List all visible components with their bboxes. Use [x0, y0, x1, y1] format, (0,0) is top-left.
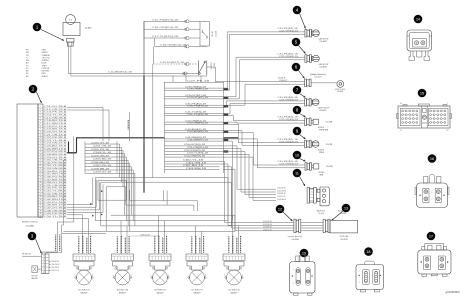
jumper harness connector A: [294, 219, 301, 232]
svg-text:C31-PK(E2)-18: C31-PK(E2)-18: [278, 97, 298, 99]
splice bundle wire pairs: [165, 86, 224, 141]
jumper harness cable: [330, 220, 358, 233]
relay K1: [200, 22, 210, 46]
svg-text:C205-BU-18: C205-BU-18: [93, 159, 111, 161]
splice bundle five wire group: [165, 144, 224, 157]
callout 13: [332, 204, 351, 221]
harness branch verticals: [64, 137, 74, 226]
diode label: [31, 275, 38, 280]
ECM pin rows and wire labels: [38, 105, 68, 218]
injector 5 connector: [223, 254, 245, 261]
speed sensor pigtail label: [319, 166, 333, 176]
svg-text:29: 29: [40, 185, 42, 187]
svg-text:NO1 INJECTOR: NO1 INJECTOR: [78, 290, 90, 292]
injector 2 solenoid: [113, 270, 132, 285]
atmos pressure pigtail label: [318, 122, 332, 132]
svg-text:C204-GN-18: C204-GN-18: [91, 155, 109, 157]
svg-text:CD-768: CD-768: [326, 166, 333, 168]
svg-text:15: 15: [40, 146, 42, 148]
svg-text:C150-GY-18: C150-GY-18: [263, 221, 272, 223]
callout 6: [292, 63, 305, 79]
atmos pressure pigtail wires: [276, 117, 305, 124]
svg-text:NO3 INJECTOR: NO3 INJECTOR: [154, 290, 166, 292]
jumper harness wires: [240, 221, 294, 231]
svg-text:37: 37: [40, 207, 42, 209]
staircase wires to pigtail connectors: [224, 32, 277, 168]
injector 3 rotated wire labels: [155, 235, 167, 253]
key switch rotated wire labels: [56, 235, 60, 251]
svg-text:16: 16: [430, 157, 434, 161]
injector 4 rotated wire labels: [192, 235, 204, 253]
svg-text:13: 13: [344, 207, 348, 211]
svg-text:C32-OR(E3)-18: C32-OR(E3)-18: [279, 164, 298, 166]
svg-text:C43-BU(E6)-18: C43-BU(E6)-18: [187, 131, 208, 133]
svg-text:13: 13: [40, 140, 42, 142]
svg-text:C32-OR(E3)-18: C32-OR(E3)-18: [279, 100, 298, 102]
injector 4 body: [187, 262, 207, 271]
svg-text:C54-GN(S4)-18: C54-GN(S4)-18: [184, 155, 205, 157]
injector splice block rails: [85, 141, 117, 173]
svg-text:C33-GN-18: C33-GN-18: [278, 78, 286, 80]
svg-text:C203-YL-18: C203-YL-18: [93, 152, 111, 154]
connector view CV1 two-pin: [407, 30, 432, 61]
speed sensor pigtail mating plug: [312, 164, 319, 169]
svg-text:C11-BK(E11)-18: C11-BK(E11)-18: [108, 72, 132, 74]
cab signal pigtail connector: [305, 55, 312, 63]
svg-text:31: 31: [40, 191, 42, 193]
svg-text:C27-PK-18: C27-PK-18: [187, 81, 209, 83]
svg-text:28: 28: [40, 182, 42, 184]
svg-text:CD-3602: CD-3602: [319, 110, 326, 112]
injector 1 connector: [73, 254, 95, 261]
svg-text:NO5 INJECTOR: NO5 INJECTOR: [228, 290, 240, 292]
svg-text:12: 12: [40, 137, 42, 139]
svg-text:C15-PK(E13)-18: C15-PK(E13)-18: [152, 19, 178, 21]
switch output wire to group connector: [207, 67, 276, 82]
ECM label: [22, 222, 38, 228]
svg-text:[Helper Harness]: [Helper Harness]: [310, 74, 325, 76]
key switch connector: [42, 254, 50, 274]
svg-text:C28-OR(E1)-18: C28-OR(E1)-18: [187, 89, 208, 91]
svg-text:11: 11: [40, 134, 42, 136]
svg-text:PRES: PRES: [319, 152, 325, 154]
svg-text:C31-PK(E2)-18: C31-PK(E2)-18: [278, 28, 298, 30]
injector 3 label: [154, 290, 166, 295]
svg-text:21: 21: [40, 162, 42, 164]
svg-text:NO4 INJECTOR: NO4 INJECTOR: [191, 290, 203, 292]
svg-text:27: 27: [40, 179, 42, 181]
svg-text:C141-OR-18: C141-OR-18: [277, 191, 286, 193]
cab power pigtail wires: [276, 28, 305, 34]
svg-text:C30-PK(E3)-18: C30-PK(E3)-18: [187, 106, 208, 108]
svg-text:C162-PK-16: C162-PK-16: [51, 267, 59, 269]
svg-text:40: 40: [40, 216, 42, 218]
svg-text:39: 39: [40, 213, 42, 215]
injector 2 feed wires: [121, 221, 127, 254]
inline connector on sender wire: [183, 72, 187, 75]
svg-text:14: 14: [40, 143, 42, 145]
svg-text:10: 10: [40, 131, 42, 133]
svg-text:KEY SW: KEY SW: [31, 275, 38, 277]
svg-text:C42-GN(E5)-18: C42-GN(E5)-18: [187, 123, 208, 125]
switch label: [211, 62, 216, 69]
lamp group pigtail mating plug: [311, 99, 319, 106]
cab signal pigtail label: [318, 63, 329, 69]
svg-text:C44-WH(E7)-18: C44-WH(E7)-18: [187, 139, 208, 141]
injector harness routing bundle: [90, 178, 235, 232]
svg-text:C160-GY-16: C160-GY-16: [51, 261, 59, 263]
callout 3: [28, 232, 42, 254]
group pigtail wires: [276, 78, 305, 85]
pressure switch S2 wire dashed: [154, 46, 198, 65]
svg-text:BLACK: BLACK: [42, 75, 49, 78]
svg-text:CD-4027: CD-4027: [314, 77, 321, 79]
svg-text:RELAY: RELAY: [211, 30, 214, 36]
svg-text:C31-PK(E2)-18: C31-PK(E2)-18: [278, 53, 298, 55]
key switch feed wires: [43, 222, 74, 254]
svg-text:SB-8477: SB-8477: [81, 293, 88, 295]
svg-text:C161-OR-16: C161-OR-16: [51, 264, 60, 266]
svg-text:17: 17: [40, 151, 42, 153]
injector 4 solenoid: [188, 270, 207, 285]
injector splice block rows: [85, 142, 117, 173]
svg-text:C16-OR(E14)-18: C16-OR(E14)-18: [152, 27, 178, 29]
cab power pigtail connector: [305, 29, 312, 37]
coolant temp pigtail wires: [276, 139, 305, 146]
injector 5 feed wires: [233, 215, 239, 254]
coolant temp pigtail connector: [305, 140, 312, 148]
atmos pressure pigtail mating plug: [311, 119, 318, 124]
svg-text:26: 26: [40, 176, 42, 178]
svg-text:20: 20: [40, 160, 42, 162]
helper harness note: [310, 74, 325, 79]
relay K1 label: [211, 30, 217, 36]
svg-text:S-8: S-8: [69, 19, 72, 21]
svg-text:C151-OR-18: C151-OR-18: [263, 224, 272, 226]
jumper wires between connectors: [301, 223, 323, 231]
injector 5 label: [228, 290, 240, 295]
svg-text:C143-YL-18: C143-YL-18: [277, 196, 285, 198]
feed wires into splice column top: [173, 76, 201, 82]
svg-text:40: 40: [400, 103, 402, 105]
svg-text:10: 10: [295, 154, 299, 158]
staircase wires to solenoid valve connector: [224, 146, 277, 200]
svg-text:C31-PK(E2)-18: C31-PK(E2)-18: [278, 117, 298, 119]
svg-text:34: 34: [40, 199, 42, 201]
injector 2 body: [113, 262, 133, 271]
pair seven drop wire: [224, 141, 233, 221]
svg-text:C207-PU-18: C207-PU-18: [93, 165, 111, 167]
injector 5 rotated wire labels: [229, 235, 241, 253]
wire labels above relay wires: [152, 19, 178, 38]
callout 16: [428, 154, 437, 163]
svg-text:C206-WH-18: C206-WH-18: [91, 162, 109, 164]
cab power pigtail mating plug: [312, 30, 320, 37]
connector view CV6: [290, 254, 316, 295]
svg-text:21: 21: [400, 130, 402, 132]
svg-text:35: 35: [40, 202, 42, 204]
svg-text:C153-YL-18: C153-YL-18: [263, 229, 271, 231]
injector 1 solenoid: [75, 270, 94, 285]
svg-text:SB-2N2: SB-2N2: [31, 278, 37, 280]
svg-text:C51-OR(S1)-18: C51-OR(S1)-18: [187, 147, 208, 149]
svg-text:ENGINE CONTROL: ENGINE CONTROL: [22, 222, 38, 224]
svg-text:CNTRL VAL: CNTRL VAL: [339, 235, 348, 238]
callout 17: [427, 232, 436, 241]
splice bundle lower rows: [165, 159, 224, 169]
group pigtail lead and ring terminal: [311, 81, 344, 88]
svg-text:36: 36: [40, 205, 42, 207]
svg-text:C31-PK(E2)-18: C31-PK(E2)-18: [278, 161, 298, 163]
wire 4 to cab connector: [155, 38, 207, 48]
thick harness branch path: [67, 138, 238, 153]
injector 3 solenoid: [151, 270, 170, 285]
lamp group pigtail connector: [305, 98, 312, 106]
svg-text:15: 15: [420, 92, 424, 96]
svg-text:C201-OR-18: C201-OR-18: [93, 146, 111, 148]
injector 5 body: [224, 262, 244, 271]
connector view CV2 ECM 40-pin: [397, 103, 452, 132]
lamp group pigtail wires: [276, 97, 305, 104]
svg-text:C152-PK-18: C152-PK-18: [263, 227, 272, 229]
group pigtail label: [335, 89, 346, 93]
svg-text:C32-OR(E3)-18: C32-OR(E3)-18: [279, 56, 298, 58]
injector 4 connector: [186, 254, 208, 261]
svg-text:30: 30: [40, 188, 42, 190]
callout 11: [293, 169, 305, 186]
svg-text:02-800: 02-800: [85, 28, 92, 30]
svg-text:C32-OR(E3)-18: C32-OR(E3)-18: [279, 141, 298, 143]
callout 14: [414, 15, 423, 24]
svg-text:19: 19: [40, 157, 42, 159]
callout 2: [29, 85, 42, 103]
svg-text:C31-PK(E2)-18: C31-PK(E2)-18: [278, 139, 298, 141]
svg-text:CD-4601: CD-4601: [26, 226, 36, 228]
svg-text:CD-5075: CD-5075: [340, 239, 347, 241]
svg-text:38: 38: [40, 210, 42, 212]
callout 12: [276, 205, 293, 221]
harness junction label: [131, 234, 160, 236]
diode D1: [32, 266, 42, 273]
callout 19: [300, 249, 309, 258]
staircase wires to jumper harness: [224, 161, 241, 231]
svg-text:C200-GY-18: C200-GY-18: [91, 142, 109, 144]
injector 1 rotated wire labels: [79, 235, 91, 253]
ECM output horizontal runs: [67, 178, 103, 213]
svg-text:ORANGE: ORANGE: [42, 54, 51, 57]
coolant temp pigtail mating plug: [311, 141, 319, 148]
svg-text:C29-GY(E2)-18: C29-GY(E2)-18: [187, 97, 208, 99]
solenoid valve connector wires: [277, 188, 286, 201]
svg-text:(Jumper Harness): (Jumper Harness): [288, 236, 303, 238]
svg-text:32: 32: [40, 193, 42, 195]
splice bundle left rail: [164, 82, 166, 173]
svg-text:25: 25: [40, 174, 42, 176]
svg-text:C32-OR(E3)-18: C32-OR(E3)-18: [279, 31, 298, 33]
svg-text:SB-8477: SB-8477: [119, 293, 126, 295]
solenoid valve labels: [316, 210, 348, 216]
injector splice block feed wires: [67, 108, 109, 142]
injector 3 connector: [149, 254, 171, 261]
wire pair from sender down and right: [68, 46, 207, 76]
injector 3 body: [150, 262, 170, 271]
connector view CV4: [418, 244, 451, 277]
svg-text:CD-563: CD-563: [340, 213, 346, 215]
svg-text:C63-WH-18: C63-WH-18: [186, 168, 206, 170]
callout 10: [293, 151, 306, 162]
lamp group pigtail label: [318, 107, 330, 113]
svg-text:C202-PK-18: C202-PK-18: [91, 149, 109, 151]
splice bundle top wire: [165, 81, 224, 83]
svg-text:14: 14: [416, 18, 420, 22]
svg-text:C60-YL-18: C60-YL-18: [183, 159, 203, 161]
jumper harness labels: [288, 235, 349, 241]
lower distribution horizontals: [62, 231, 106, 233]
svg-text:C62-BU-18: C62-BU-18: [183, 165, 203, 167]
svg-text:CD-538: CD-538: [318, 213, 324, 215]
bus vertical from relay wires: [143, 21, 145, 76]
svg-text:KB SWITCH: KB SWITCH: [22, 254, 32, 256]
cab signal pigtail wires: [276, 53, 305, 60]
ECM A1 body: [17, 104, 38, 217]
callout 18: [364, 247, 373, 256]
callout 15: [418, 89, 427, 98]
key switch connector wire labels: [49, 261, 60, 272]
sender connector J1: [67, 39, 75, 47]
svg-text:12: 12: [278, 208, 282, 212]
wire color legend: [26, 50, 51, 78]
callout 5: [292, 38, 306, 54]
cab signal pigtail mating plug: [312, 55, 320, 62]
svg-text:C34-BU-18: C34-BU-18: [279, 80, 287, 82]
speed sensor pigtail wires: [276, 161, 305, 168]
svg-text:CD-4643: CD-4643: [319, 41, 326, 43]
pressure switch S2: [199, 61, 207, 76]
svg-text:16: 16: [40, 148, 42, 150]
connector view CV3 four-pin: [415, 174, 449, 207]
injector 1 body: [74, 262, 94, 271]
svg-text:18: 18: [40, 154, 42, 156]
group pigtail connector: [305, 79, 312, 87]
svg-text:PRES SEN: PRES SEN: [319, 130, 329, 132]
solenoid valve body: [317, 187, 329, 206]
svg-text:C9-RD-16-OR: C9-RD-16-OR: [140, 234, 150, 236]
relay K1 wires with inline connectors: [144, 20, 200, 40]
speed sensor pigtail connector: [305, 163, 312, 171]
svg-text:SB-8477: SB-8477: [157, 293, 164, 295]
svg-text:NO2 INJECTOR: NO2 INJECTOR: [117, 290, 129, 292]
svg-text:C19-PU(E17)-18: C19-PU(E17)-18: [160, 62, 184, 64]
svg-text:C208-BR-18: C208-BR-18: [91, 168, 109, 170]
injector splice block output wires: [117, 144, 135, 231]
splice takeoff stubs: [224, 89, 229, 151]
injector 1 label: [78, 290, 90, 295]
callout 9: [293, 127, 306, 139]
injector 1 feed wires: [67, 215, 94, 254]
callout 1: [33, 23, 64, 41]
svg-text:SB-8477: SB-8477: [231, 293, 238, 295]
coolant temp pigtail label: [318, 144, 332, 154]
atmos pressure pigtail connector: [305, 118, 312, 126]
svg-text:C52-PK(S2)-18: C52-PK(S2)-18: [184, 150, 205, 152]
svg-text:SWITCH: SWITCH: [211, 62, 213, 69]
svg-text:C144-GN-18: C144-GN-18: [277, 199, 286, 201]
svg-text:24: 24: [40, 171, 42, 173]
svg-text:C32-OR(E3)-18: C32-OR(E3)-18: [279, 119, 298, 121]
injector 2 rotated wire labels: [117, 235, 129, 253]
svg-text:CD-4644: CD-4644: [319, 66, 326, 68]
svg-text:C209-GY-18: C209-GY-18: [93, 172, 111, 174]
callout 4: [293, 6, 306, 29]
svg-text:CD-2056: CD-2056: [291, 239, 298, 241]
injector 2 label: [117, 290, 129, 295]
jumper harness connector B: [323, 219, 330, 232]
svg-text:C163-YL-16: C163-YL-16: [51, 270, 59, 272]
svg-text:11: 11: [295, 172, 299, 176]
splice bundle right rail: [223, 82, 225, 173]
connector view CV5: [356, 261, 384, 292]
svg-text:SB-8477: SB-8477: [194, 293, 201, 295]
thick harness vertical: [143, 76, 145, 192]
svg-text:CD-440: CD-440: [215, 31, 217, 37]
svg-text:CD-758: CD-758: [326, 144, 333, 146]
injector 5 solenoid: [225, 270, 244, 285]
svg-text:CD-748: CD-748: [326, 122, 333, 124]
svg-text:17: 17: [429, 235, 433, 239]
svg-text:CD-292: CD-292: [337, 91, 343, 93]
injector 4 feed wires: [196, 226, 202, 254]
auxiliary vertical wires: [128, 64, 153, 178]
svg-text:20: 20: [447, 130, 449, 132]
svg-text:C50-GY(S0)-18: C50-GY(S0)-18: [184, 144, 205, 146]
svg-text:VALVE SOL: VALVE SOL: [316, 210, 325, 213]
svg-text:C140-GY-18: C140-GY-18: [277, 188, 286, 190]
svg-text:C41-YL(E4)-18: C41-YL(E4)-18: [187, 114, 208, 116]
callout 7: [293, 86, 306, 98]
svg-text:18: 18: [367, 250, 371, 254]
svg-text:g01345063: g01345063: [446, 290, 460, 294]
sender B1 body: [63, 15, 80, 36]
solenoid valve connector: [307, 187, 316, 203]
svg-text:22: 22: [40, 165, 42, 167]
svg-text:C18-GN(E16)-18: C18-GN(E16)-18: [160, 44, 186, 46]
key switch supply wire: [22, 254, 42, 257]
svg-text:23: 23: [40, 168, 42, 170]
svg-text:C61-GN-18: C61-GN-18: [186, 162, 206, 164]
ECM pin strip: [38, 104, 43, 217]
injector 2 connector: [112, 254, 134, 261]
svg-text:C17-YL(E15)-18: C17-YL(E15)-18: [152, 36, 178, 38]
injector 4 label: [191, 290, 203, 295]
cab power pigtail label: [318, 38, 329, 44]
svg-text:C53-YL(S3)-18: C53-YL(S3)-18: [187, 153, 208, 155]
svg-text:C142-PK-18: C142-PK-18: [277, 193, 286, 195]
injector 3 feed wires: [159, 215, 165, 254]
svg-text:33: 33: [40, 196, 42, 198]
callout 8: [293, 106, 306, 117]
